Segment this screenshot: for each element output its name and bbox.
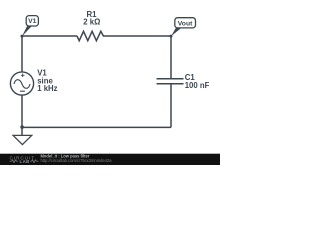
V1 plus sign	[21, 74, 25, 78]
footer bar	[0, 154, 220, 165]
wire bottom horizontal	[22, 126, 171, 128]
svg-text:LAB: LAB	[20, 159, 30, 164]
V1 minus sign	[20, 90, 25, 92]
node label Vout box	[175, 18, 196, 28]
footer logo LAB with zigzag	[10, 160, 19, 163]
svg-text:V1: V1	[28, 18, 37, 25]
svg-text:100 nF: 100 nF	[185, 81, 210, 90]
svg-text:http://circuitlab.com/c/75cx2m: http://circuitlab.com/c/75cx2mnmde42a	[41, 158, 113, 163]
resistor R1	[77, 31, 103, 40]
voltage source V1 circle	[10, 72, 33, 95]
svg-text:2 kΩ: 2 kΩ	[83, 17, 100, 26]
wire left vertical upper	[21, 36, 23, 72]
node label V1 box	[26, 16, 38, 26]
svg-text:Vout: Vout	[178, 20, 193, 27]
wire left vertical lower	[21, 95, 23, 127]
wire right vertical upper	[170, 36, 172, 79]
ground stem	[21, 127, 23, 135]
wire top right segment	[103, 35, 171, 37]
capacitor C1 top plate	[157, 78, 184, 80]
node label Vout pointer	[171, 27, 181, 36]
V1 sine wave	[14, 80, 30, 89]
wire top horizontal (node Vout net from V1 to R1 to Vout corner)	[22, 35, 77, 37]
ground	[13, 135, 32, 144]
wire right vertical lower	[170, 84, 172, 128]
corner blob node Vout	[170, 35, 173, 38]
node label V1 pointer	[22, 25, 32, 36]
capacitor C1 bottom plate	[157, 83, 184, 85]
junction dot node gnd	[20, 125, 24, 129]
corner blob node V1	[21, 35, 24, 38]
svg-text:1 kHz: 1 kHz	[37, 84, 57, 93]
